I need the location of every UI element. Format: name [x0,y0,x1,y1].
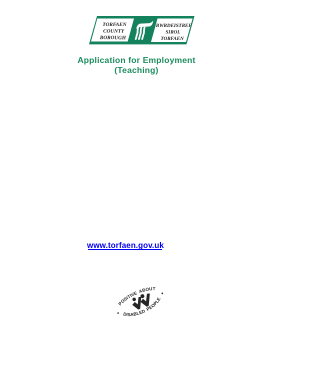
circular text [112,281,168,324]
green title [0,55,273,75]
svg-text:BWRDEISTREF: BWRDEISTREF [155,23,193,29]
svg-text:SIROL: SIROL [166,29,181,35]
green band [89,16,195,44]
right white panel [151,19,193,43]
two ticks [130,291,154,312]
Positive About Disabled People two-ticks badge [107,268,173,334]
right panel text BWRDEISTREF SIROL TORFAEN [155,23,193,42]
link underline [88,249,163,250]
left white panel [91,19,134,42]
svg-text:BOROUGH: BOROUGH [99,35,127,41]
Torfaen County Borough logo [88,16,196,45]
svg-text:TORFAEN: TORFAEN [161,36,184,42]
svg-text:TORFAEN: TORFAEN [103,22,127,28]
waterfall T mark [136,21,153,30]
svg-text:COUNTY: COUNTY [103,29,125,35]
blue hyperlink [87,241,164,250]
left panel text TORFAEN COUNTY BOROUGH [99,22,127,41]
